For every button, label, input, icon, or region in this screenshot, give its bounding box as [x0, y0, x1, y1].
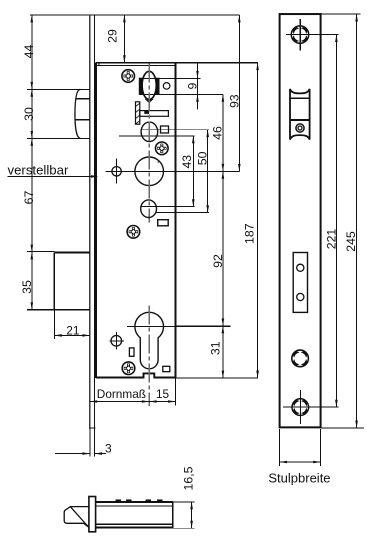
case wall extension for 15-dim	[175, 378, 177, 405]
adjuster bracket (right of oval)	[161, 126, 169, 133]
extension line 43-bottom	[141, 206, 195, 208]
screw head top-left (cross)	[122, 70, 135, 83]
dimension 16,5	[191, 502, 193, 528]
svg-text:16,5: 16,5	[182, 466, 196, 490]
svg-text:93: 93	[227, 94, 241, 108]
svg-text:43: 43	[180, 155, 194, 169]
svg-text:221: 221	[324, 229, 338, 250]
speck inside follower	[157, 161, 159, 163]
svg-text:46: 46	[210, 126, 224, 140]
latch bevel diagonal	[70, 507, 89, 527]
dimension 93	[238, 15, 240, 171]
case bottom extension line to dims	[176, 377, 259, 379]
extension line 43-top	[119, 135, 195, 137]
T-lever horizontal arm	[140, 111, 169, 117]
axle bottom line	[139, 93, 223, 95]
latch opening in faceplate	[290, 89, 310, 140]
svg-text:67: 67	[22, 191, 36, 205]
svg-text:187: 187	[243, 223, 257, 244]
latch guide screw (circle in circle)	[296, 124, 304, 132]
faceplate front edge (left view)	[89, 15, 91, 428]
dimension 21	[54, 334, 89, 336]
dimension 187	[257, 63, 259, 378]
lock case outline	[96, 62, 258, 64]
follower (nut) circle	[135, 157, 164, 186]
bottom fixing screw (4-petal with crosshair)	[292, 399, 309, 416]
dimension 46 / 92 / 31 chain	[222, 94, 224, 378]
dimension 221	[335, 35, 337, 408]
fixing hole with crosshair (lower)	[111, 336, 122, 347]
dimension Stulpbreite	[279, 429, 281, 466]
roller axle right black bar	[156, 78, 159, 94]
roller axle left black bar	[139, 78, 142, 94]
cylinder axis extension line	[176, 325, 231, 327]
dimension chain line 44/30/67/35	[31, 15, 33, 310]
cylinder vertical centerline	[148, 306, 150, 406]
small rectangular opening below adjuster	[158, 220, 169, 226]
svg-text:35: 35	[20, 280, 34, 294]
adjusting T-lever vertical bar with hatching	[136, 102, 140, 124]
follower horizontal centerline	[105, 170, 239, 172]
profile cylinder hole (keyhole shape)	[135, 312, 164, 368]
faceplate outline (front view)	[280, 14, 321, 427]
extension line 50-top	[141, 129, 209, 131]
bottom extension line to 245-dim	[321, 427, 364, 429]
dimension 29	[123, 15, 125, 63]
guide ribs on body top	[116, 500, 121, 502]
svg-text:verstellbar: verstellbar	[8, 163, 69, 178]
svg-text:Dornmaß: Dornmaß	[97, 387, 146, 401]
cylinder horizontal centerline	[127, 326, 230, 328]
lower rectangular cutout with two holes	[293, 253, 307, 313]
dead bolt (thrown, front view)	[27, 251, 54, 253]
case bottom edge with cylinder notch	[96, 373, 176, 377]
svg-text:92: 92	[211, 254, 225, 268]
small rectangular opening left of cylinder	[129, 348, 134, 356]
svg-text:15: 15	[156, 387, 170, 401]
faceplate extension lines for 3-dim	[89, 428, 91, 457]
extension lines for 16,5 dim	[173, 501, 195, 503]
T-lever arm notch	[145, 111, 149, 114]
screw head bottom-left (cross)	[122, 362, 135, 375]
faceplate cross-section bar	[89, 497, 96, 532]
svg-text:30: 30	[22, 107, 36, 121]
handle screw hole with crosshair (upper)	[112, 167, 121, 176]
svg-text:3: 3	[105, 441, 112, 455]
latch head (top view, beveled)	[64, 507, 89, 528]
screw head lower (cross)	[127, 226, 140, 239]
adjuster oval (upper)	[141, 122, 158, 141]
top extension line (faceplate top, runs to 93-dim)	[30, 14, 239, 16]
screw head mid (cross)	[156, 142, 169, 155]
svg-text:21: 21	[66, 323, 80, 337]
svg-text:44: 44	[22, 45, 36, 59]
axle top line	[139, 77, 200, 79]
dimension Dornmass / 15	[90, 401, 176, 403]
latch roller bottom wedge	[145, 99, 154, 103]
top extension line to 245-dim	[321, 13, 361, 15]
faceplate back edge (left view)	[94, 15, 96, 428]
dimension 50	[207, 130, 209, 213]
latch bolt head (front view)	[27, 88, 90, 90]
roller pivot small circle	[163, 83, 170, 90]
dimension 9	[197, 63, 199, 110]
svg-text:50: 50	[196, 151, 210, 165]
adjuster circle (lower)	[141, 200, 157, 218]
extension line 50-bottom	[157, 212, 209, 214]
faceplate bottom tick	[89, 427, 95, 429]
dimension 43	[192, 136, 194, 207]
svg-text:245: 245	[344, 231, 358, 252]
svg-text:9: 9	[186, 83, 200, 90]
latch roller oval	[142, 71, 156, 99]
svg-text:29: 29	[106, 29, 120, 43]
dimension 3 (faceplate thickness)	[55, 453, 90, 455]
vertical centerline through latch parts	[148, 64, 150, 223]
top fixing screw (4-petal with crosshair)	[291, 26, 308, 43]
svg-text:31: 31	[209, 341, 223, 355]
svg-text:Stulpbreite: Stulpbreite	[268, 470, 330, 485]
lock body (top view)	[96, 501, 173, 503]
dimension 245	[356, 14, 358, 428]
middle screw (4-petal)	[292, 350, 309, 367]
small rectangular opening right of cylinder	[163, 366, 170, 371]
